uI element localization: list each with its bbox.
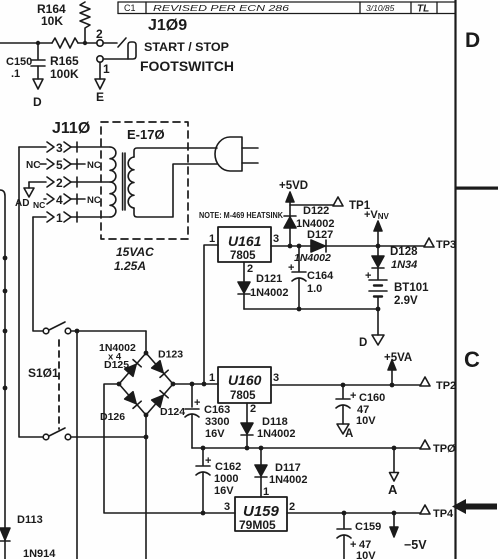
wire secondary top to plug: [134, 148, 217, 157]
wire U159 pin2 output: [287, 512, 420, 514]
svg-text:16V: 16V: [214, 485, 234, 497]
sheet border right: [454, 0, 456, 559]
svg-text:+: +: [194, 397, 200, 409]
svg-text:−5V: −5V: [404, 538, 427, 552]
node BT101 bottom: [376, 307, 381, 312]
svg-text:C1: C1: [124, 3, 136, 13]
capacitor C159: [337, 513, 381, 559]
svg-text:A: A: [345, 428, 353, 440]
supply arrow +5VA: [384, 352, 412, 385]
wire pin1 to ground: [99, 62, 101, 79]
capacitor C162: [196, 448, 241, 513]
svg-text:D: D: [465, 29, 480, 52]
svg-text:3300: 3300: [205, 416, 229, 428]
svg-text:NC: NC: [33, 200, 45, 210]
diode D126: [125, 392, 142, 409]
sheet pointer arrow: [452, 499, 497, 514]
node -5V tap: [392, 511, 397, 516]
svg-text:7805: 7805: [230, 390, 256, 402]
capacitor C160: [336, 385, 385, 427]
node D122 tap: [288, 244, 293, 249]
svg-text:D124: D124: [160, 406, 185, 418]
svg-text:+: +: [205, 455, 211, 467]
svg-text:1N34: 1N34: [391, 259, 417, 271]
wire bridge bottom down off page: [145, 415, 147, 559]
node at switch a output: [75, 329, 80, 334]
svg-text:4: 4: [56, 193, 63, 207]
svg-text:1: 1: [56, 211, 63, 225]
node ground A tap: [392, 446, 397, 451]
supply arrow +5VD: [279, 180, 308, 246]
svg-text:BT101: BT101: [394, 282, 429, 294]
diode D128: [372, 246, 418, 279]
regulator U159: [235, 497, 287, 532]
svg-text:3/10/85: 3/10/85: [366, 3, 395, 13]
svg-text:TP4: TP4: [433, 508, 454, 520]
AC plug P101: [215, 137, 258, 171]
node junction at C150: [36, 41, 40, 45]
svg-text:D118: D118: [262, 416, 288, 428]
bridge corner nodes: [117, 351, 176, 418]
wire bridge left to negative rail: [104, 384, 235, 513]
svg-text:3: 3: [224, 501, 230, 513]
svg-text:C162: C162: [215, 461, 241, 473]
svg-text:2: 2: [96, 27, 103, 41]
node D118 bottom: [245, 446, 250, 451]
node D117 top: [259, 446, 264, 451]
svg-text:TP3: TP3: [436, 239, 456, 251]
svg-text:D113: D113: [17, 514, 43, 526]
wire U161 pin1 to unregulated rail: [204, 245, 218, 384]
svg-text:D: D: [33, 95, 42, 109]
wire switch a to bridge top: [145, 331, 147, 353]
wire secondary bottom to plug: [134, 164, 217, 217]
transformer primary winding: [110, 147, 116, 217]
svg-text:C: C: [464, 347, 480, 372]
connector J109 pin 2: [96, 27, 103, 46]
svg-text:D: D: [359, 337, 367, 349]
wire top horizontal: [0, 42, 52, 44]
mechanical link S101: [58, 340, 60, 429]
svg-text:1N914: 1N914: [23, 548, 56, 559]
node U161 feed tap: [202, 382, 207, 387]
node junction at R164: [83, 41, 87, 45]
svg-text:1.25A: 1.25A: [114, 259, 146, 273]
svg-text:15VAC: 15VAC: [116, 245, 154, 259]
svg-text:10V: 10V: [356, 550, 376, 559]
svg-text:2: 2: [289, 501, 295, 513]
svg-text:NC: NC: [87, 160, 101, 171]
svg-text:10V: 10V: [356, 415, 376, 427]
switch S101 pole a: [43, 322, 146, 334]
svg-text:D123: D123: [158, 349, 183, 361]
svg-text:TP2: TP2: [436, 380, 456, 392]
svg-text:+5VD: +5VD: [279, 180, 308, 192]
connector J109 pin 1: [97, 56, 128, 76]
wire to pin 2: [78, 42, 97, 44]
svg-text:C163: C163: [204, 404, 230, 416]
svg-text:TPØ: TPØ: [433, 443, 456, 455]
wire ground rail of U161 stage: [244, 308, 378, 310]
svg-text:1N4002: 1N4002: [250, 287, 289, 299]
connector J110 pin 3: [19, 141, 110, 155]
svg-text:C159: C159: [355, 521, 381, 533]
svg-text:S1Ø1: S1Ø1: [28, 366, 59, 380]
ground A (rail): [388, 448, 399, 497]
svg-text:3: 3: [56, 141, 63, 155]
svg-text:+: +: [350, 390, 356, 402]
node AD: [15, 188, 45, 210]
wire J110 pin1 down to switch a: [33, 217, 43, 331]
svg-text:1: 1: [263, 486, 269, 498]
svg-text:1000: 1000: [214, 473, 238, 485]
svg-text:.1: .1: [11, 68, 20, 80]
regulator U161: [218, 227, 271, 262]
wire U161 pin3 output: [271, 245, 424, 247]
wire pin2 to node AD: [28, 182, 30, 188]
svg-text:NC: NC: [87, 195, 101, 206]
diode D124: [152, 391, 169, 408]
label 1N4002 x4: [99, 342, 136, 363]
svg-text:D121: D121: [256, 273, 282, 285]
connector J110 pin 1: [33, 211, 110, 225]
wire J110 pin3 down to switch b: [19, 147, 43, 437]
svg-text:FOOTSWITCH: FOOTSWITCH: [140, 58, 234, 74]
node dots on left wire: [3, 256, 8, 391]
node +Vnv tap: [376, 244, 381, 249]
capacitor C163: [185, 384, 230, 448]
svg-text:U161: U161: [228, 233, 262, 249]
svg-text:NC: NC: [26, 160, 40, 171]
transformer E-170 dashed box: [101, 122, 188, 239]
left edge wire: [0, 190, 5, 559]
svg-text:1.0: 1.0: [307, 283, 322, 295]
title block revision strip: [118, 2, 455, 15]
zone tick: [455, 187, 498, 190]
test point TP1: [290, 197, 371, 212]
svg-text:NOTE: M-469 HEATSINK: NOTE: M-469 HEATSINK: [199, 210, 284, 220]
diode D121: [238, 262, 289, 309]
svg-text:79M05: 79M05: [239, 518, 276, 532]
test point TP0: [420, 440, 456, 455]
battery BT101: [365, 270, 429, 309]
diode D118: [241, 403, 296, 448]
wire U160 pin3 output: [271, 384, 420, 386]
svg-text:2: 2: [247, 263, 253, 275]
ground D (C150): [33, 79, 43, 109]
label 15VAC 1.25A: [114, 245, 154, 273]
svg-text:+: +: [365, 270, 371, 282]
connector J110 pin 4: [44, 193, 101, 207]
svg-text:10K: 10K: [41, 14, 63, 28]
ground E: [95, 79, 105, 104]
node C162 tap: [201, 446, 206, 451]
svg-text:5: 5: [56, 158, 63, 172]
svg-text:START / STOP: START / STOP: [144, 42, 229, 54]
svg-text:2: 2: [250, 403, 256, 415]
svg-text:J11Ø: J11Ø: [52, 120, 90, 137]
switch S101 pole b: [43, 428, 146, 440]
regulator U160: [218, 367, 271, 403]
svg-text:1: 1: [103, 62, 110, 76]
svg-text:D117: D117: [275, 462, 301, 474]
ground rail (0V): [192, 447, 420, 449]
svg-text:7805: 7805: [230, 250, 256, 262]
svg-text:R165: R165: [50, 54, 79, 68]
svg-text:C160: C160: [359, 392, 385, 404]
diode D123: [152, 361, 169, 378]
svg-text:J1Ø9: J1Ø9: [148, 17, 187, 34]
diode D125: [125, 360, 142, 377]
svg-text:A: A: [388, 482, 398, 497]
test point TP4: [420, 505, 454, 520]
svg-text:D122: D122: [303, 205, 329, 217]
connector J110 pin 2: [29, 176, 110, 190]
transformer core: [123, 153, 125, 210]
svg-text:E: E: [96, 90, 104, 104]
svg-text:REVISED PER ECN 286: REVISED PER ECN 286: [153, 3, 289, 13]
svg-text:U160: U160: [228, 372, 262, 388]
svg-text:1N4002: 1N4002: [257, 428, 296, 440]
ground A (C160): [337, 424, 353, 440]
svg-text:D128: D128: [390, 246, 418, 258]
svg-text:C150: C150: [6, 56, 32, 68]
transformer secondary winding: [128, 157, 134, 208]
connector J110 pin 5: [26, 158, 101, 172]
diode D117: [255, 448, 308, 497]
ground D (battery): [359, 335, 384, 349]
wire bridge right to U160 pin1: [173, 383, 218, 385]
svg-text:3: 3: [273, 233, 279, 245]
svg-text:100K: 100K: [50, 67, 79, 81]
bridge diamond wires: [119, 353, 173, 415]
footswitch actuator: [103, 38, 136, 59]
node C160 tap: [341, 383, 346, 388]
svg-text:+5VA: +5VA: [384, 352, 412, 364]
svg-text:1N4002: 1N4002: [294, 252, 331, 264]
test point TP3: [424, 238, 456, 251]
svg-text:AD: AD: [15, 198, 29, 209]
diode D122: [284, 205, 335, 230]
svg-text:16V: 16V: [205, 428, 225, 440]
svg-text:D125: D125: [104, 359, 129, 371]
capacitor C150: [6, 43, 45, 80]
svg-text:D127: D127: [307, 229, 333, 241]
node C164 tap: [297, 244, 302, 249]
svg-text:E-17Ø: E-17Ø: [127, 127, 165, 142]
svg-text:1: 1: [209, 372, 215, 384]
wire down to ground D: [377, 309, 379, 335]
node bridge bottom / switch b: [144, 435, 149, 440]
node C162 bottom: [201, 511, 206, 516]
node +5VA tap: [390, 383, 395, 388]
resistor R164: [37, 2, 90, 43]
node C163 tap: [190, 382, 195, 387]
supply arrow -5V: [390, 513, 427, 552]
svg-text:3: 3: [273, 372, 279, 384]
node C159 tap: [342, 511, 347, 516]
svg-text:2.9V: 2.9V: [394, 295, 418, 307]
svg-text:1: 1: [209, 233, 215, 245]
node C164 bottom: [297, 307, 302, 312]
test point TP2: [420, 377, 456, 392]
svg-text:C164: C164: [307, 270, 334, 282]
diode D113: [0, 514, 56, 559]
wire switch a output down (off page): [76, 331, 78, 559]
resistor R165: [50, 38, 79, 81]
diode D127: [294, 229, 333, 264]
svg-text:TL: TL: [417, 4, 429, 15]
supply arrow +Vnv: [364, 209, 390, 246]
svg-text:1N4002: 1N4002: [269, 474, 308, 486]
capacitor C164: [288, 246, 334, 309]
svg-text:2: 2: [56, 176, 63, 190]
